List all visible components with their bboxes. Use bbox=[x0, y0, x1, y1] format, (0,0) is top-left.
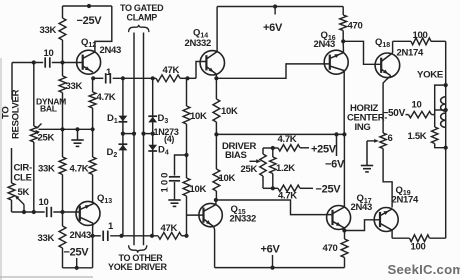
potentiometer R 25K DYNAM BAL bbox=[30, 126, 37, 142]
svg-text:SeekIC.com: SeekIC.com bbox=[388, 262, 460, 277]
transistor Q12 2N43 (PNP, upper-left) bbox=[77, 50, 101, 74]
wire gated-clamp line 2 bbox=[143, 33, 145, 246]
potentiometer R 5K CIRCLE bbox=[8, 183, 15, 200]
wire +6V bottom rail bbox=[215, 267, 345, 269]
wire yoke damping bottom bbox=[435, 144, 446, 148]
wire Q17 emitter up to -6V rail bbox=[343, 134, 345, 207]
svg-text:2N174: 2N174 bbox=[392, 195, 420, 206]
transistor Q15 2N332 (NPN, bottom-middle) bbox=[199, 203, 222, 226]
wire Q17 collector junction bbox=[343, 228, 345, 231]
potentiometer R 6 horiz centering bbox=[380, 133, 386, 149]
node Q16 emitter junction bbox=[341, 39, 345, 43]
capacitor C 10 bottom (input coupling) bbox=[46, 207, 48, 217]
node ground stub / mid rail bbox=[75, 127, 79, 131]
resistor R 1.5K bbox=[432, 127, 438, 144]
svg-text:1 0 0: 1 0 0 bbox=[160, 173, 171, 193]
wire +6V top rail bbox=[217, 6, 343, 8]
node +6V top dot bbox=[273, 4, 277, 8]
wire Q14 collector to +6V rail bbox=[216, 7, 218, 52]
node D3 line tie bbox=[151, 76, 155, 80]
node Q13 collector junction bbox=[91, 234, 95, 238]
svg-text:4.7K: 4.7K bbox=[278, 134, 297, 145]
wire top coupling line (Q12 to 47K to Q14 base) bbox=[93, 77, 103, 79]
transistor Q13 2N43 (PNP, lower-left) bbox=[76, 201, 100, 225]
node bias bottom bbox=[271, 186, 275, 190]
wiper arrow of 6 pot bbox=[367, 140, 376, 142]
svg-text:4.7K: 4.7K bbox=[278, 191, 297, 202]
resistor R 10 (-50V to yoke tap) bbox=[406, 114, 409, 116]
wiper arrow of 5K pot bbox=[16, 197, 24, 205]
svg-text:47K: 47K bbox=[161, 223, 178, 234]
svg-text:470: 470 bbox=[348, 21, 363, 32]
resistor R 47K top bbox=[156, 75, 180, 82]
svg-text:+25V: +25V bbox=[311, 144, 337, 156]
transistor Q14 2N332 (NPN, top-middle) bbox=[200, 51, 224, 75]
node Q15 collector junction bbox=[214, 198, 218, 202]
svg-text:+6V: +6V bbox=[263, 22, 283, 34]
wire to-resolver stub top bbox=[11, 63, 13, 100]
wire bottom coupling line (Q13 to 47K to Q15 base) bbox=[93, 235, 101, 237]
wire 5K wiper stub bbox=[23, 205, 25, 213]
wire Q15 collector up to node bbox=[215, 200, 217, 205]
resistor R 100 bottom (Q19 collector to yoke line) bbox=[392, 237, 409, 239]
node D2 line tie bottom bbox=[119, 234, 123, 238]
node 4.7K line / mid rail bbox=[91, 127, 95, 131]
wire Q14 emitter to Q16 base bbox=[215, 74, 217, 78]
svg-text:−25V: −25V bbox=[64, 247, 90, 259]
resistor R 33K upper-left (bias, -25V rail to Q12 base) bbox=[62, 6, 64, 18]
wire Q15 emitter to +6V bottom rail bbox=[213, 227, 216, 268]
node junction base-line / 33K chain bbox=[60, 60, 64, 64]
wire Q15 base branch bbox=[187, 214, 204, 216]
capacitor C 100 (bypass to ground) bbox=[169, 176, 180, 178]
node 47K / 10K / Q15 base junction bbox=[184, 234, 188, 238]
ground symbol left bbox=[77, 129, 79, 140]
node -6V rail left bbox=[214, 132, 218, 136]
svg-text:YOKE DRIVER: YOKE DRIVER bbox=[108, 262, 168, 272]
svg-text:10K: 10K bbox=[219, 173, 236, 184]
svg-text:1.2K: 1.2K bbox=[276, 163, 295, 174]
wire pot to Q19 emitter (jog) bbox=[383, 149, 392, 208]
svg-text:−25V: −25V bbox=[316, 184, 342, 196]
svg-text:10: 10 bbox=[44, 48, 54, 59]
resistor R 4.7K to -25V bbox=[278, 185, 300, 191]
svg-text:33K: 33K bbox=[38, 164, 55, 175]
wire 6-pot wiper to ground bbox=[366, 141, 368, 166]
node yoke center tap bbox=[444, 108, 448, 112]
capacitor C 1 bottom bbox=[102, 231, 104, 241]
wire 10K column left (47K node down) bbox=[186, 78, 188, 106]
ground symbol right bbox=[361, 165, 373, 167]
node D1 line tie bbox=[121, 76, 125, 80]
resistor R 100 top (Q18 emitter to yoke line) bbox=[393, 40, 411, 42]
wire DYNAM BAL pot line (base line down to bottom base line) bbox=[33, 63, 35, 127]
wire -6V rail bbox=[216, 133, 344, 135]
node Q14 emitter junction bbox=[214, 76, 218, 80]
resistor R 470 bottom (Q17 collector to +6V) bbox=[344, 231, 346, 240]
node -25V top supply dot bbox=[87, 4, 91, 8]
wire D3/D4 midpoint tie to clamp line 2 bbox=[144, 133, 153, 135]
wire -6V label stub bbox=[336, 134, 338, 156]
svg-text:470: 470 bbox=[323, 243, 338, 254]
wire Q19 collector down bbox=[391, 230, 393, 238]
brace to other yoke driver (under-brace) bbox=[129, 245, 147, 252]
node 100 cap tap bbox=[184, 153, 188, 157]
svg-text:(4): (4) bbox=[164, 134, 174, 144]
wire -25V bottom rail bbox=[63, 267, 93, 269]
arrow driver-bias pointer bbox=[250, 160, 259, 162]
resistor R 470 top (+6V to Q16 emitter) bbox=[342, 7, 344, 16]
resistor R 10K lower-right-mid (-6V to Q15 collector) bbox=[215, 134, 217, 169]
node 5K wiper / base line bbox=[22, 210, 26, 214]
wire bias box top bbox=[263, 147, 278, 149]
svg-text:6: 6 bbox=[388, 133, 393, 144]
svg-text:25K: 25K bbox=[241, 164, 258, 175]
node yoke bottom tap bbox=[444, 146, 448, 150]
wire -25V bottom label stub bbox=[76, 258, 78, 268]
svg-text:BIAS: BIAS bbox=[225, 150, 247, 161]
wire Q18 collector down to horiz-centering pot bbox=[383, 76, 391, 133]
svg-text:RESOLVER: RESOLVER bbox=[11, 89, 22, 139]
svg-text:ING: ING bbox=[355, 122, 371, 133]
svg-text:33K: 33K bbox=[38, 233, 55, 244]
wire step up to Q14 base bbox=[196, 62, 206, 79]
node bias top bbox=[271, 146, 275, 150]
transistor Q17 2N43 (PNP, bottom-right driver) bbox=[327, 206, 351, 230]
svg-text:BAL: BAL bbox=[40, 104, 57, 114]
svg-text:2N43: 2N43 bbox=[100, 45, 122, 56]
svg-text:YOKE: YOKE bbox=[417, 70, 444, 81]
ground symbol middle bbox=[168, 199, 180, 201]
wire D1-D2 line bbox=[122, 78, 124, 236]
svg-text:4.7K: 4.7K bbox=[70, 164, 89, 175]
node D4 line tie bottom bbox=[150, 234, 154, 238]
svg-text:10: 10 bbox=[412, 100, 422, 111]
wire Q17 collector to Q19 base bbox=[344, 220, 380, 231]
wire Q16 to Q18 base bbox=[343, 41, 381, 64]
wire D1/D2 midpoint tie to clamp line 1 bbox=[123, 133, 134, 135]
wire yoke line top corner bbox=[445, 41, 447, 85]
wire D3-D4 line bbox=[152, 78, 154, 236]
resistor R 10K lower-left-mid bbox=[183, 178, 190, 196]
svg-text:100: 100 bbox=[413, 30, 428, 41]
svg-text:+6V: +6V bbox=[261, 244, 281, 256]
svg-text:CLE: CLE bbox=[14, 173, 32, 184]
potentiometer R 25K driver bias bbox=[262, 148, 264, 154]
wire jog to 100 capacitor bbox=[175, 155, 187, 176]
svg-text:TO GATED: TO GATED bbox=[120, 3, 164, 13]
node Q16/Q17 line on -6V rail bbox=[342, 132, 346, 136]
wire Q16 emitter stub bbox=[342, 41, 344, 52]
resistor R 33K bottom-left (Q13 base to -25V) bbox=[62, 212, 64, 226]
svg-text:47K: 47K bbox=[163, 65, 180, 76]
resistor R 4.7K to +25V bbox=[278, 145, 300, 151]
wire yoke damping top bbox=[435, 85, 446, 127]
svg-text:2N174: 2N174 bbox=[397, 48, 425, 59]
node +6V bottom dot bbox=[270, 266, 274, 270]
svg-text:100: 100 bbox=[411, 242, 426, 253]
svg-text:2N43: 2N43 bbox=[351, 202, 373, 213]
inductor YOKE bbox=[445, 85, 447, 238]
svg-text:10: 10 bbox=[39, 197, 49, 208]
node pot line / base line bbox=[32, 210, 36, 214]
wire +6V bottom label stub bbox=[272, 255, 274, 268]
node -25V bottom dot bbox=[75, 266, 79, 270]
svg-text:10K: 10K bbox=[190, 111, 207, 122]
svg-text:10K: 10K bbox=[190, 184, 207, 195]
wire 100 cap to ground bbox=[174, 182, 176, 200]
svg-text:2N332: 2N332 bbox=[230, 214, 257, 225]
capacitor C 1 top bbox=[105, 73, 107, 83]
scan edge artifact left bbox=[0, 58, 2, 280]
wire to-resolver stub bottom bbox=[11, 148, 13, 183]
diode D3 1N273 bbox=[148, 117, 157, 123]
svg-text:−6V: −6V bbox=[325, 159, 345, 171]
wire mid-left node rail (25K wiper to 4.7K emitters) bbox=[39, 128, 93, 130]
resistor R 10K upper-left-mid bbox=[183, 106, 190, 124]
node yoke top tap bbox=[444, 83, 448, 87]
resistor R 4.7K lower-left (Q13 emitter) bbox=[92, 129, 94, 157]
wiper arrow of 25K pot bbox=[37, 124, 42, 129]
node Q12 emitter junction bbox=[91, 76, 95, 80]
node 33K chain / mid rail bbox=[60, 127, 64, 131]
svg-text:1.5K: 1.5K bbox=[408, 131, 427, 142]
resistor R 10K upper-right-mid (Q14 emitter to -6V) bbox=[215, 78, 217, 99]
wire +6V label stub bbox=[274, 7, 276, 15]
resistor R 33K mid-left (Q12 base to mid node) bbox=[62, 63, 64, 77]
capacitor C 10 top (input coupling) bbox=[44, 57, 46, 67]
wire Q12 base line bbox=[12, 62, 43, 64]
svg-text:CLAMP: CLAMP bbox=[127, 13, 158, 23]
svg-text:2N43: 2N43 bbox=[70, 230, 92, 241]
node junction base-line / pot line bbox=[32, 60, 36, 64]
wire Q12 collector loop to -25V rail bbox=[95, 6, 112, 52]
svg-text:5K: 5K bbox=[18, 187, 30, 198]
node Q17 collector bbox=[342, 228, 346, 232]
wire Q18 emitter up bbox=[392, 41, 394, 53]
svg-text:2N332: 2N332 bbox=[185, 38, 212, 49]
wire Q15 collector to Q17 base bbox=[216, 200, 333, 215]
resistor R 1.2K bbox=[272, 148, 274, 157]
resistor R 4.7K upper-left (Q12 emitter) bbox=[92, 78, 94, 92]
svg-text:2N43: 2N43 bbox=[314, 39, 336, 50]
svg-text:10K: 10K bbox=[221, 106, 238, 117]
brace to gated clamp (over-brace) bbox=[129, 25, 149, 32]
svg-text:33K: 33K bbox=[40, 25, 57, 36]
svg-text:−50V: −50V bbox=[383, 108, 406, 119]
svg-text:−25V: −25V bbox=[77, 15, 103, 27]
transistor Q16 2N43 (PNP, top-right) bbox=[324, 50, 348, 74]
wire bias box bottom bbox=[263, 187, 278, 189]
node 47K / 10K / Q14 base junction bbox=[185, 76, 189, 80]
wire Q13 collector down to -25V rail bbox=[92, 223, 95, 267]
svg-text:25K: 25K bbox=[38, 133, 55, 144]
wire Q13 base line bbox=[12, 211, 45, 213]
diode D2 1N273 bbox=[119, 145, 128, 151]
node -6V label stub dot bbox=[334, 132, 338, 136]
svg-text:4.7K: 4.7K bbox=[97, 92, 116, 103]
svg-text:33K: 33K bbox=[66, 81, 83, 92]
scan edge artifact bottom-left bbox=[0, 276, 93, 278]
wire gated-clamp line 1 bbox=[133, 33, 135, 246]
wire Q16 collector to -6V rail bbox=[343, 71, 345, 135]
resistor R 47K bottom bbox=[158, 232, 182, 239]
diode D4 1N273 bbox=[148, 145, 157, 151]
wire 10K column to bottom 47K node bbox=[186, 196, 188, 236]
wire yoke center tie bbox=[435, 109, 446, 111]
transistor Q19 2N174 (PNP, bottom-right output) bbox=[374, 208, 398, 232]
diode D1 1N273 bbox=[119, 116, 128, 122]
node 33K chain / base line bbox=[60, 210, 64, 214]
resistor R 33K lower-left-mid (mid node to Q13 base) bbox=[62, 129, 64, 157]
wire -25V top rail bbox=[63, 5, 112, 7]
transistor Q18 2N174 (PNP, top-right output) bbox=[375, 53, 400, 78]
